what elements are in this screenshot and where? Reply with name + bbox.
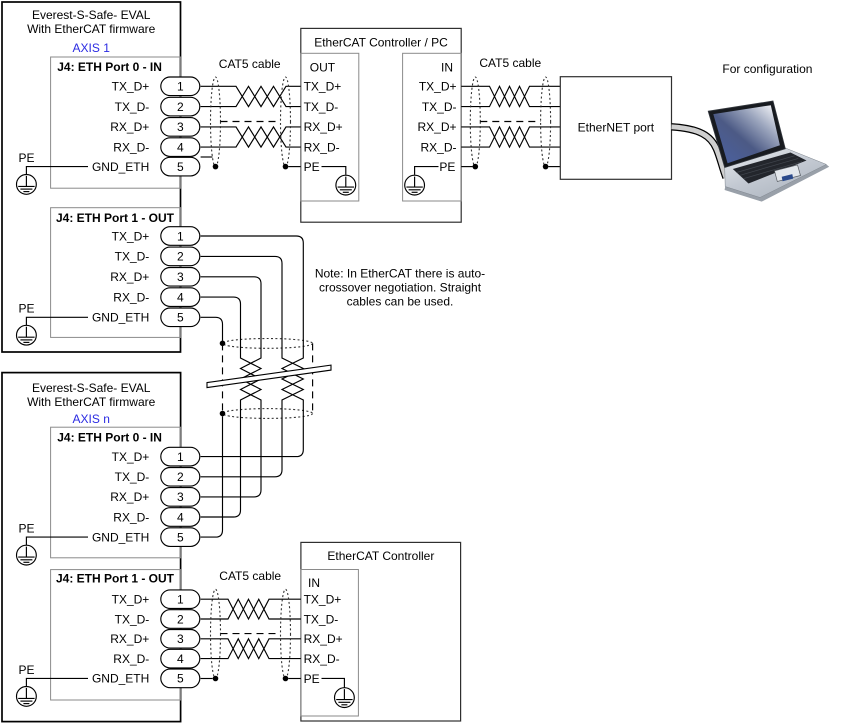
svg-text:PE: PE (439, 160, 455, 174)
wire cable2 RX pair A (twisted pair) (461, 127, 560, 147)
svg-text:RX_D+: RX_D+ (110, 120, 149, 134)
pin 3 (An P0) (161, 488, 200, 507)
port box IN (bottom controller) (301, 570, 359, 717)
svg-text:4: 4 (177, 652, 184, 666)
svg-text:GND_ETH: GND_ETH (92, 160, 149, 174)
pin 1 (A1 P0) (161, 77, 200, 96)
pin 2 (A1 P0) (161, 97, 200, 116)
device box AXIS n (Everest-S-Safe- EVAL) (2, 373, 181, 722)
cable 2 shield ellipse left (470, 77, 480, 167)
svg-text:With EtherCAT firmware: With EtherCAT firmware (27, 22, 156, 36)
svg-text:2: 2 (177, 470, 184, 484)
svg-text:TX_D+: TX_D+ (112, 593, 150, 607)
wire cable1 TX pair A (twisted pair) (201, 86, 301, 106)
svg-text:Everest-S-Safe- EVAL: Everest-S-Safe- EVAL (32, 8, 151, 22)
cable 2 shield junction dot left (473, 164, 479, 170)
svg-text:TX_D+: TX_D+ (419, 80, 457, 94)
cable 2 shield drain wire (dashed) (480, 121, 540, 123)
cable 2 shield junction dot right (543, 164, 549, 170)
svg-text:TX_D-: TX_D- (304, 100, 339, 114)
pin 1 (An P1) (161, 590, 200, 609)
wire PE to ground (ctrl OUT) (322, 167, 346, 175)
pin 4 (An P1) (161, 649, 200, 668)
svg-text:IN: IN (308, 576, 320, 590)
connector box J4 ETH Port 1 OUT (AXIS 1) (51, 208, 181, 338)
svg-text:TX_D-: TX_D- (115, 612, 150, 626)
wire cable3 TX pair A (twisted pair) (201, 599, 301, 619)
wire cable3 TX pair B (twisted pair) (201, 599, 301, 619)
ground symbol PE ctrl OUT (336, 175, 356, 195)
svg-text:Note: In EtherCAT there is aut: Note: In EtherCAT there is auto- (315, 267, 485, 281)
wire GND_ETH to PE (A1 P1) (26, 317, 88, 325)
cable 1 shield junction dot left (213, 164, 219, 170)
svg-text:RX_D+: RX_D+ (304, 120, 343, 134)
pin 3 (A1 P1) (161, 268, 200, 287)
wire PE to ground (ctrl IN) (415, 167, 439, 175)
connector box J4 ETH Port 1 OUT (AXIS n) (51, 570, 181, 700)
svg-text:1: 1 (177, 450, 184, 464)
svg-text:PE: PE (19, 663, 35, 677)
svg-text:3: 3 (177, 270, 184, 284)
pin 2 (An P1) (161, 610, 200, 629)
svg-text:TX_D+: TX_D+ (112, 80, 150, 94)
svg-text:4: 4 (177, 290, 184, 304)
svg-text:RX_D+: RX_D+ (304, 632, 343, 646)
svg-text:GND_ETH: GND_ETH (92, 311, 149, 325)
wire cable2 TX pair B (twisted pair) (461, 86, 560, 106)
svg-text:GND_ETH: GND_ETH (92, 672, 149, 686)
svg-text:For configuration: For configuration (722, 62, 812, 76)
box EtherCAT Controller / PC (301, 28, 461, 222)
pin 3 (An P1) (161, 630, 200, 649)
pin 1 (An P0) (161, 447, 200, 466)
svg-text:EtherCAT Controller: EtherCAT Controller (327, 549, 434, 563)
wire cable2 RX pair B (twisted pair) (461, 127, 560, 147)
wire crossover pin 1 (AXIS1 P1 to AXISn P0, twisted) (201, 236, 304, 457)
laptop (for configuration PC) (708, 101, 829, 202)
wire shield dot to PE (cable 1) (288, 166, 301, 168)
svg-text:CAT5 cable: CAT5 cable (479, 56, 541, 70)
cable bundle slash (white band) (207, 365, 331, 388)
ground symbol PE ctrl2 IN (335, 688, 355, 708)
wire PE to ground (ctrl2 IN) (322, 678, 345, 687)
wire pin5 to shield dot (cable 3) (201, 678, 213, 680)
cable 2 shield ellipse right (541, 77, 551, 167)
wire crossover pin 3 (AXIS1 P1 to AXISn P0, twisted) (201, 277, 261, 497)
svg-text:4: 4 (177, 510, 184, 524)
svg-text:RX_D-: RX_D- (113, 290, 149, 304)
wire GND_ETH to PE (An P0) (26, 537, 88, 545)
wire GND_ETH to PE (A1 P0) (26, 167, 88, 175)
crossover cable shield wall left (dashed) (222, 343, 224, 413)
svg-text:TX_D+: TX_D+ (112, 450, 150, 464)
wire cable3 RX pair A (twisted pair) (201, 639, 301, 659)
svg-text:2: 2 (177, 100, 184, 114)
wire PE to shield dot left (cable 2) (461, 166, 472, 168)
crossover shield junction dot top (220, 341, 226, 347)
svg-text:2: 2 (177, 250, 184, 264)
svg-text:J4: ETH Port 0 - IN: J4: ETH Port 0 - IN (57, 431, 162, 445)
device AXIS 1 title (27, 8, 156, 36)
pin 5 (An P0) (161, 528, 200, 547)
cable 3 shield ellipse right (281, 589, 291, 678)
svg-text:RX_D+: RX_D+ (110, 490, 149, 504)
pin 5 (A1 P1) (161, 308, 200, 327)
svg-text:AXIS n: AXIS n (73, 412, 110, 426)
crossover cable shield cylinder top ellipse (223, 339, 313, 349)
pin 4 (A1 P0) (161, 138, 200, 157)
ground symbol PE An P1 (17, 687, 37, 707)
ground symbol PE An P0 (17, 545, 37, 565)
svg-text:3: 3 (177, 120, 184, 134)
pin 2 (A1 P1) (161, 247, 200, 266)
cable 3 shield ellipse left (211, 589, 221, 678)
svg-text:GND_ETH: GND_ETH (92, 530, 149, 544)
svg-text:J4: ETH Port 0 - IN: J4: ETH Port 0 - IN (57, 60, 162, 74)
port box IN (controller) (403, 53, 462, 201)
svg-text:OUT: OUT (310, 61, 336, 75)
wire cable1 TX pair B (twisted pair) (201, 86, 301, 106)
svg-text:RX_D+: RX_D+ (417, 120, 456, 134)
svg-text:CAT5 cable: CAT5 cable (219, 569, 281, 583)
svg-text:RX_D-: RX_D- (304, 652, 340, 666)
svg-text:crossover negotiation. Straigh: crossover negotiation. Straight (319, 281, 482, 295)
cable 1 shield ellipse left (211, 77, 221, 167)
crossover cable shield wall right (dashed) (312, 343, 314, 413)
svg-text:With EtherCAT firmware: With EtherCAT firmware (27, 395, 156, 409)
svg-text:J4: ETH Port 1 - OUT: J4: ETH Port 1 - OUT (56, 571, 175, 585)
pin 5 (An P1) (161, 669, 200, 688)
svg-text:EtherCAT Controller / PC: EtherCAT Controller / PC (314, 36, 448, 50)
svg-text:RX_D-: RX_D- (304, 140, 340, 154)
svg-text:AXIS 1: AXIS 1 (73, 41, 111, 55)
cable 1 shield junction dot right (283, 164, 289, 170)
device box AXIS 1 (Everest-S-Safe- EVAL) (2, 2, 181, 352)
svg-text:PE: PE (19, 151, 35, 165)
cable 3 shield junction dot right (283, 676, 289, 682)
cable 1 shield drain wire (dashed) (221, 121, 281, 123)
device AXIS n title (27, 381, 156, 409)
cable 1 shield ellipse right (281, 77, 291, 167)
pin 4 (A1 P1) (161, 288, 200, 307)
wire cable1 RX pair A (twisted pair) (201, 127, 301, 147)
svg-text:TX_D-: TX_D- (422, 100, 457, 114)
connector box J4 ETH Port 0 IN (AXIS 1) (51, 57, 181, 188)
box EtherCAT Controller (bottom) (301, 542, 461, 721)
svg-text:5: 5 (177, 672, 184, 686)
wire crossover pin 4 (AXIS1 P1 to AXISn P0, twisted) (201, 297, 261, 517)
cable 3 shield drain wire (dashed) (221, 633, 281, 635)
svg-text:TX_D-: TX_D- (115, 470, 150, 484)
svg-text:TX_D+: TX_D+ (304, 80, 342, 94)
pin 2 (An P0) (161, 468, 200, 487)
svg-text:PE: PE (19, 302, 35, 316)
port box OUT (controller) (301, 53, 359, 201)
pin 3 (A1 P0) (161, 118, 200, 137)
svg-text:IN: IN (441, 61, 453, 75)
svg-text:PE: PE (19, 522, 35, 536)
svg-text:PE: PE (304, 672, 320, 686)
svg-text:5: 5 (177, 160, 184, 174)
svg-text:3: 3 (177, 632, 184, 646)
wire crossover shield pin 5 top (AXIS1 P1) (201, 317, 223, 340)
crossover shield junction dot bottom (220, 411, 226, 417)
svg-text:J4: ETH Port 1 - OUT: J4: ETH Port 1 - OUT (56, 211, 175, 225)
wire GND_ETH to PE (An P1) (26, 678, 88, 686)
svg-text:5: 5 (177, 530, 184, 544)
wire shield stub near pin 5 (cable 1) (201, 156, 213, 158)
svg-text:TX_D-: TX_D- (115, 250, 150, 264)
svg-text:Everest-S-Safe- EVAL: Everest-S-Safe- EVAL (32, 381, 151, 395)
wire shield dot to PE (cable 3) (288, 678, 301, 680)
connector box J4 ETH Port 0 IN (AXIS n) (51, 427, 181, 558)
svg-text:RX_D-: RX_D- (420, 140, 456, 154)
svg-text:RX_D-: RX_D- (113, 510, 149, 524)
wire cable3 RX pair B (twisted pair) (201, 639, 301, 659)
svg-text:1: 1 (177, 593, 184, 607)
svg-text:TX_D-: TX_D- (115, 100, 150, 114)
pin 4 (An P0) (161, 508, 200, 527)
crossover cable shield cylinder bottom ellipse (223, 409, 313, 419)
svg-text:RX_D+: RX_D+ (110, 270, 149, 284)
svg-text:RX_D+: RX_D+ (110, 632, 149, 646)
svg-text:RX_D-: RX_D- (113, 140, 149, 154)
svg-text:3: 3 (177, 490, 184, 504)
pin 1 (A1 P1) (161, 227, 200, 246)
svg-text:2: 2 (177, 612, 184, 626)
pin 5 (A1 P0) (161, 157, 200, 176)
wire cable2 TX pair A (twisted pair) (461, 86, 560, 106)
svg-text:TX_D-: TX_D- (304, 612, 339, 626)
box EtherNET port (560, 77, 671, 180)
svg-text:CAT5 cable: CAT5 cable (219, 57, 281, 71)
wire cable1 RX pair B (twisted pair) (201, 127, 301, 147)
wire shield dot right to EtherNET port (cable 2) (548, 166, 560, 168)
svg-text:TX_D+: TX_D+ (304, 593, 342, 607)
note text (auto-crossover) (315, 267, 485, 309)
ground symbol PE A1 P1 (17, 325, 37, 345)
svg-text:1: 1 (177, 229, 184, 243)
svg-text:5: 5 (177, 311, 184, 325)
cable 3 shield junction dot left (213, 676, 219, 682)
wire crossover pin 2 (AXIS1 P1 to AXISn P0, twisted) (201, 256, 304, 476)
ground symbol PE ctrl IN (405, 175, 425, 195)
svg-text:TX_D+: TX_D+ (112, 229, 150, 243)
ground symbol PE A1 P0 (17, 175, 37, 195)
svg-text:4: 4 (177, 140, 184, 154)
svg-text:EtherNET port: EtherNET port (578, 121, 655, 135)
cable to laptop (672, 127, 727, 178)
svg-text:RX_D-: RX_D- (113, 652, 149, 666)
svg-text:cables can be used.: cables can be used. (347, 294, 454, 308)
wire crossover shield pin 5 bottom (AXISn P0) (201, 416, 223, 537)
svg-text:PE: PE (304, 160, 320, 174)
svg-text:1: 1 (177, 80, 184, 94)
